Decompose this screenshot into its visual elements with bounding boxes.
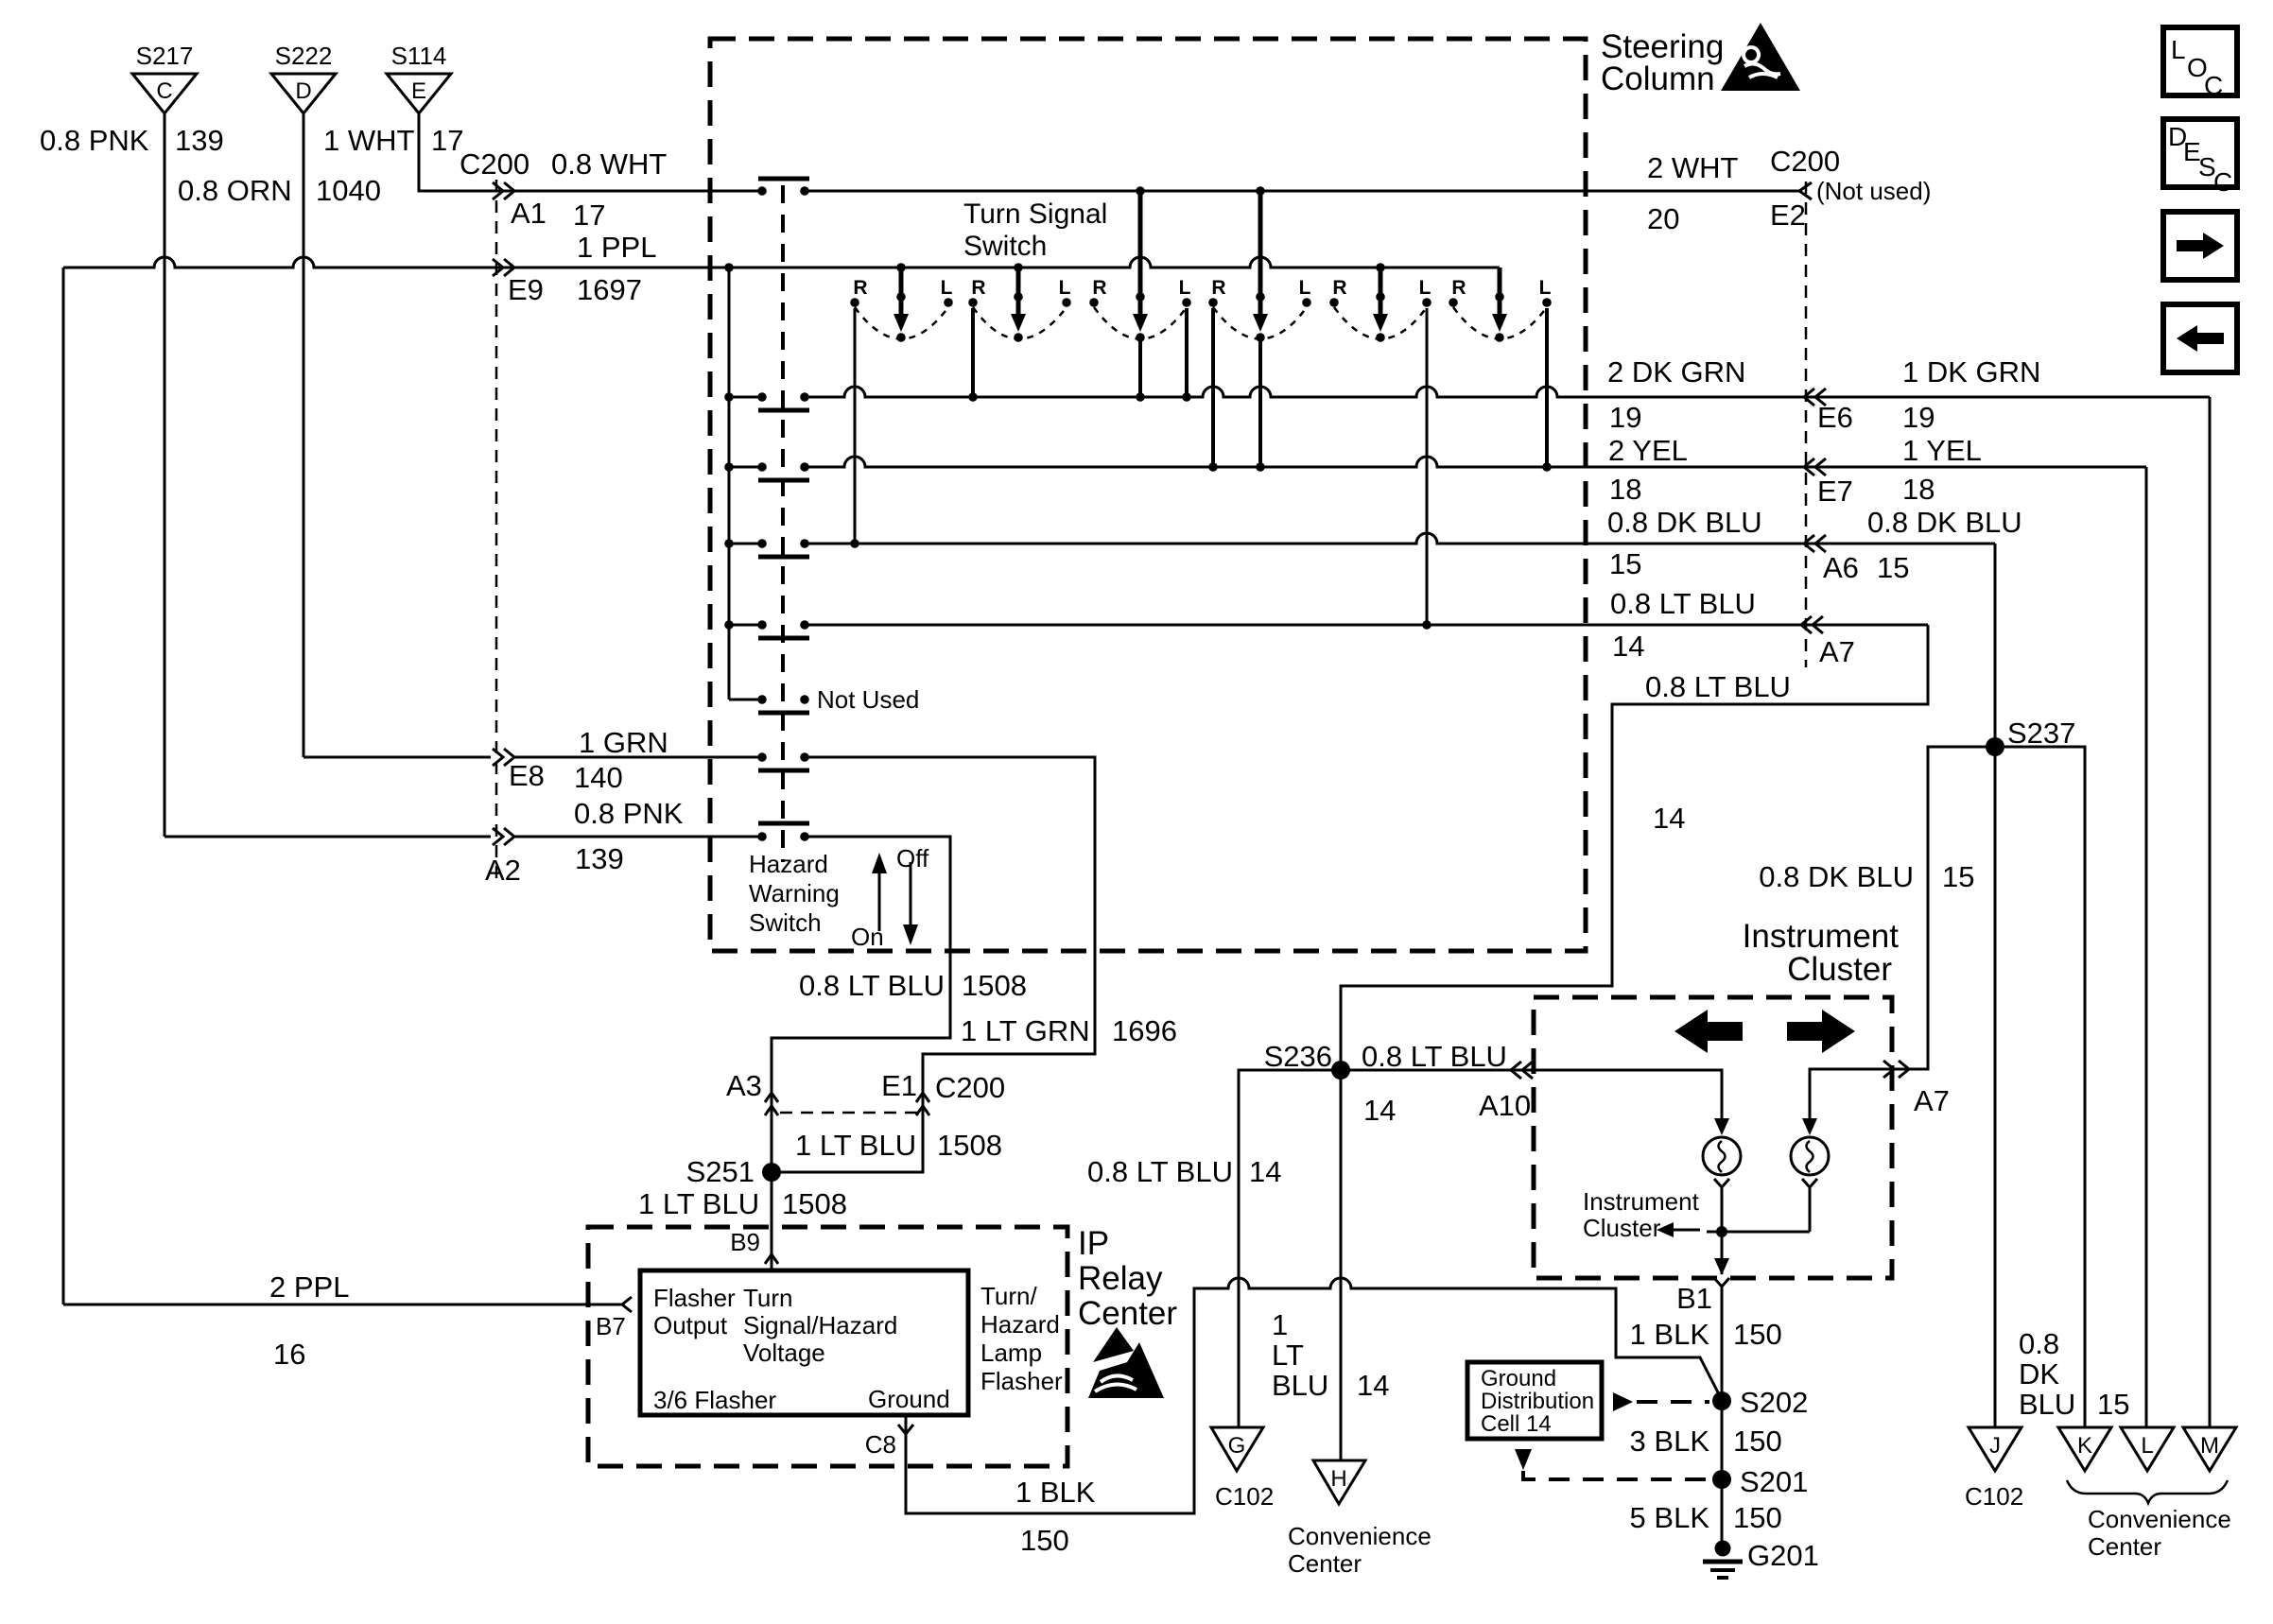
off-page triangle E (S114)	[387, 74, 451, 113]
svg-text:Output: Output	[653, 1311, 728, 1339]
wire row4 2 YEL / 1 YEL	[805, 457, 2146, 467]
svg-text:Instrument: Instrument	[1583, 1187, 1700, 1216]
svg-text:1 GRN: 1 GRN	[579, 726, 668, 759]
svg-text:Relay: Relay	[1078, 1260, 1163, 1297]
svg-text:R: R	[1211, 277, 1225, 299]
svg-text:0.8 LT BLU: 0.8 LT BLU	[1610, 587, 1756, 620]
svg-text:D: D	[295, 78, 311, 104]
svg-text:1 WHT: 1 WHT	[323, 124, 415, 157]
svg-text:L: L	[2171, 35, 2186, 64]
svg-text:1 LT BLU: 1 LT BLU	[638, 1187, 759, 1220]
hazard contact row1 (0.8 WHT feed)	[757, 186, 767, 196]
svg-text:0.8 DK BLU: 0.8 DK BLU	[1867, 506, 2022, 539]
turn signal switch pole 1 (R 904 / C 953 / L 1003)	[896, 263, 906, 272]
svg-text:15: 15	[1877, 551, 1909, 584]
svg-text:14: 14	[1653, 802, 1685, 835]
connector C200 pin E9 arrows	[493, 259, 514, 276]
steering column dashed box	[710, 39, 1586, 951]
connector C200 right dashed line	[1805, 181, 1808, 667]
wire 1 BLK 150 B1 to S202	[1721, 1287, 1724, 1401]
left bulb bottom chevron	[1714, 1179, 1729, 1187]
svg-text:1 BLK: 1 BLK	[1015, 1476, 1096, 1509]
node: hazard feed junction on row2	[724, 263, 734, 272]
svg-text:E9: E9	[508, 273, 544, 306]
svg-text:140: 140	[574, 761, 623, 794]
wire 5 BLK 150	[1721, 1479, 1724, 1547]
wire pole4 wiper to row4	[1258, 337, 1262, 467]
off-page triangle J	[1969, 1427, 2021, 1471]
svg-text:150: 150	[1020, 1524, 1069, 1557]
svg-text:19: 19	[1609, 401, 1641, 434]
splice S237	[1986, 737, 2004, 756]
svg-text:C: C	[2204, 71, 2223, 100]
svg-text:Center: Center	[2088, 1532, 2161, 1561]
wire row6 0.8 LT BLU	[805, 624, 1928, 627]
svg-text:L: L	[2141, 1433, 2153, 1459]
connector C200 pin E2 arrow	[1799, 182, 1812, 199]
wire row6 return path to S236	[1341, 625, 1928, 1070]
cluster right turn arrow icon	[1787, 1010, 1855, 1053]
svg-text:Center: Center	[1078, 1295, 1177, 1332]
turn signal switch pole 5 (R 1411 / C 1460 / L 1509)	[1376, 263, 1385, 272]
svg-text:E: E	[411, 78, 426, 104]
svg-text:139: 139	[175, 124, 224, 157]
svg-text:C200: C200	[935, 1071, 1005, 1104]
svg-text:S217: S217	[136, 42, 194, 70]
svg-text:BLU: BLU	[2019, 1388, 2075, 1421]
legend box LOC	[2163, 27, 2237, 95]
splice S202	[1712, 1391, 1731, 1410]
connector C200 pin A3 arrows	[765, 1093, 778, 1115]
left turn indicator bulb	[1703, 1137, 1741, 1175]
svg-text:S202: S202	[1740, 1386, 1808, 1419]
wire A2 row into hazard switch	[514, 836, 762, 838]
wire S236 down to H triangle	[1340, 1070, 1343, 1460]
node pole3 wiper on row3	[1136, 392, 1145, 402]
off-page triangle K	[2058, 1427, 2111, 1471]
connector C200 pin A7 arrows	[1801, 616, 1823, 633]
svg-text:L: L	[941, 277, 953, 299]
svg-text:Ground: Ground	[868, 1385, 950, 1413]
connector C200 pin E6 arrows	[1804, 389, 1826, 406]
svg-text:150: 150	[1733, 1501, 1782, 1534]
svg-text:Ground: Ground	[1481, 1366, 1556, 1391]
svg-text:1508: 1508	[937, 1129, 1002, 1162]
svg-text:K: K	[2077, 1433, 2092, 1459]
svg-text:Hazard: Hazard	[749, 850, 828, 878]
svg-text:A2: A2	[485, 854, 521, 887]
svg-text:14: 14	[1363, 1094, 1396, 1127]
wire S236 to G triangle	[1239, 1070, 1341, 1427]
svg-text:C8: C8	[865, 1430, 896, 1459]
svg-text:150: 150	[1733, 1318, 1782, 1351]
svg-text:0.8 LT BLU: 0.8 LT BLU	[1645, 670, 1791, 703]
svg-text:1508: 1508	[782, 1187, 847, 1220]
svg-text:A1: A1	[511, 197, 547, 230]
svg-text:1 PPL: 1 PPL	[577, 231, 656, 264]
svg-text:17: 17	[573, 199, 605, 232]
svg-text:G201: G201	[1747, 1539, 1819, 1572]
connector pin B7 chevron	[622, 1297, 632, 1312]
svg-text:A6: A6	[1823, 551, 1859, 584]
svg-text:1697: 1697	[577, 273, 642, 306]
svg-text:15: 15	[1942, 860, 1974, 893]
svg-text:Cell 14: Cell 14	[1481, 1411, 1552, 1437]
svg-text:C200: C200	[460, 147, 529, 181]
off-page triangle H	[1313, 1460, 1365, 1504]
wire S237 right branch to K	[1995, 747, 2085, 1427]
off-page triangle C (S217)	[132, 74, 197, 113]
svg-text:Center: Center	[1288, 1549, 1362, 1578]
svg-text:L: L	[1299, 277, 1311, 299]
svg-text:Voltage: Voltage	[743, 1339, 825, 1367]
svg-text:1 BLK: 1 BLK	[1630, 1318, 1710, 1351]
svg-text:C102: C102	[1965, 1482, 2023, 1511]
svg-text:Convenience: Convenience	[1288, 1522, 1431, 1550]
svg-text:2 DK GRN: 2 DK GRN	[1607, 355, 1745, 389]
svg-text:H: H	[1330, 1466, 1346, 1492]
svg-text:R: R	[1092, 277, 1106, 299]
svg-text:Switch: Switch	[749, 908, 822, 937]
legend box left arrow	[2163, 304, 2237, 372]
svg-text:1 LT GRN: 1 LT GRN	[961, 1014, 1090, 1047]
node pole3L on row3	[1182, 392, 1191, 402]
svg-text:S114: S114	[391, 42, 447, 70]
off-page triangle D (S222)	[271, 74, 336, 113]
ground distribution down arrow	[1515, 1449, 1532, 1470]
svg-text:0.8 LT BLU: 0.8 LT BLU	[1087, 1155, 1233, 1188]
wire 3 BLK 150	[1721, 1401, 1724, 1479]
ground distribution cell box	[1467, 1362, 1602, 1439]
svg-text:1 DK GRN: 1 DK GRN	[1902, 355, 2040, 389]
svg-text:15: 15	[1609, 547, 1641, 580]
svg-text:Off: Off	[896, 844, 929, 872]
svg-text:18: 18	[1902, 473, 1935, 506]
svg-text:14: 14	[1612, 630, 1644, 663]
svg-text:1 YEL: 1 YEL	[1902, 434, 1982, 467]
svg-text:R: R	[971, 277, 985, 299]
wire 1 DK GRN drop to M	[2209, 397, 2212, 1427]
node pole4R on row4	[1208, 462, 1218, 472]
wire S236 to A10	[1341, 1069, 1534, 1072]
connector C200 pin E8 arrows	[493, 749, 514, 766]
off-page triangle M	[2183, 1427, 2236, 1471]
wire 1 GRN 140 row E8	[304, 756, 491, 759]
svg-text:R: R	[1451, 277, 1466, 299]
wire row3 2 DK GRN / 1 DK GRN	[805, 387, 2210, 397]
svg-text:Flasher: Flasher	[980, 1367, 1063, 1395]
connector pin B1 chevron	[1714, 1278, 1729, 1287]
wire 0.8 WHT row1: E down then right through C200 A1 to E2	[419, 113, 1799, 191]
svg-text:C: C	[156, 78, 172, 104]
wire pole3 L to row3	[1185, 308, 1189, 397]
wire pole3 wiper to row3	[1138, 337, 1142, 397]
connector C200 pin A2 arrows	[493, 828, 514, 845]
wire pole1 R to row5	[854, 308, 857, 544]
wire A10 to left bulb	[1534, 1070, 1722, 1127]
wire left bulb down	[1721, 1187, 1724, 1232]
svg-text:A7: A7	[1819, 635, 1855, 668]
svg-text:BLU: BLU	[1272, 1369, 1328, 1402]
hazard switch mechanical dashed line	[781, 185, 785, 862]
cluster left turn arrow icon	[1674, 1010, 1743, 1053]
svg-text:139: 139	[575, 842, 624, 875]
arrowhead into right bulb	[1802, 1118, 1817, 1135]
svg-text:Lamp: Lamp	[980, 1339, 1042, 1367]
wire E8 row into hazard switch	[514, 756, 762, 759]
svg-text:0.8 ORN: 0.8 ORN	[178, 174, 292, 207]
svg-text:L: L	[1539, 277, 1552, 299]
svg-text:L: L	[1059, 277, 1071, 299]
svg-text:E1: E1	[881, 1069, 917, 1102]
svg-text:C102: C102	[1215, 1482, 1274, 1511]
node pole5L on row6	[1422, 620, 1431, 630]
svg-text:A7: A7	[1914, 1084, 1950, 1117]
svg-text:S237: S237	[2007, 717, 2075, 750]
wire 0.8 PNK 139 from C down to A2 row	[164, 113, 166, 837]
svg-text:Convenience: Convenience	[2088, 1505, 2231, 1533]
svg-text:2 PPL: 2 PPL	[269, 1270, 349, 1304]
node bulbs common junction	[1716, 1226, 1727, 1237]
svg-text:Turn: Turn	[743, 1284, 793, 1312]
IP relay center dashed box	[588, 1227, 1067, 1466]
svg-text:Flasher: Flasher	[653, 1284, 736, 1312]
svg-text:(Not used): (Not used)	[1816, 177, 1931, 205]
wire 0.8 DK BLU drop to S237 and J	[1994, 544, 1997, 1427]
svg-text:Turn Signal: Turn Signal	[963, 199, 1107, 230]
svg-text:2 YEL: 2 YEL	[1608, 434, 1688, 467]
hazard On arrow (down)	[910, 862, 912, 926]
dashed link to S201	[1523, 1471, 1709, 1479]
arrowhead into left bulb	[1714, 1118, 1729, 1135]
svg-text:A3: A3	[726, 1069, 762, 1102]
svg-text:E2: E2	[1770, 199, 1806, 232]
svg-text:L: L	[1419, 277, 1431, 299]
wire S237 left branch to cluster A7	[1892, 747, 1995, 1069]
svg-text:M: M	[2200, 1433, 2219, 1459]
svg-text:0.8: 0.8	[2019, 1327, 2059, 1360]
svg-text:1: 1	[1272, 1308, 1288, 1341]
svg-text:S201: S201	[1740, 1465, 1808, 1498]
wire pole5 L to row6	[1426, 308, 1429, 625]
ground distribution right arrow	[1613, 1392, 1633, 1411]
svg-text:15: 15	[2097, 1388, 2129, 1421]
dashed link to S202	[1637, 1400, 1709, 1404]
wire pole2 R to row3	[971, 308, 975, 397]
svg-text:Warning: Warning	[749, 879, 840, 907]
turn signal switch pole 2 (R 1029 / C 1077 / L 1128)	[1014, 263, 1023, 272]
wire A7 to right bulb	[1810, 1069, 1892, 1127]
hazard Off arrow (up)	[878, 872, 881, 931]
svg-text:B9: B9	[730, 1228, 760, 1256]
hazard contact row6	[724, 620, 734, 630]
node pole6L on row4	[1542, 462, 1552, 472]
svg-text:0.8 PNK: 0.8 PNK	[40, 124, 149, 157]
wire 0.8 LT BLU 1508 from hazard contact to A3	[772, 837, 950, 1172]
svg-text:1 LT BLU: 1 LT BLU	[795, 1129, 916, 1162]
wire 0.8 PNK 139 row A2	[165, 836, 491, 838]
svg-text:150: 150	[1733, 1425, 1782, 1458]
svg-text:Column: Column	[1601, 60, 1715, 97]
wire common down through cluster box edge	[1721, 1232, 1724, 1274]
svg-text:A10: A10	[1479, 1089, 1531, 1122]
svg-text:E6: E6	[1817, 401, 1853, 434]
svg-text:14: 14	[1357, 1369, 1389, 1402]
svg-text:R: R	[1332, 277, 1346, 299]
connector pin B9 chevron	[765, 1254, 778, 1264]
wire row5 0.8 DK BLU	[805, 533, 1995, 544]
arrowhead at cluster box bottom	[1714, 1258, 1729, 1275]
svg-text:Turn/: Turn/	[980, 1282, 1037, 1310]
node pole2R on row3	[968, 392, 978, 402]
svg-text:E8: E8	[509, 759, 545, 792]
instrument cluster dashed box	[1534, 997, 1892, 1278]
wire bulbs common	[1707, 1231, 1810, 1234]
svg-text:1040: 1040	[316, 174, 381, 207]
svg-text:2 WHT: 2 WHT	[1647, 151, 1739, 184]
right bulb bottom chevron	[1802, 1179, 1817, 1187]
svg-text:Distribution: Distribution	[1481, 1389, 1594, 1414]
connector pin A10 arrows	[1511, 1062, 1533, 1079]
hazard contact E8 row (1 GRN)	[757, 752, 767, 762]
svg-text:B7: B7	[596, 1312, 626, 1340]
turn signal switch pole 3 (R 1157 / C 1206 / L 1255)	[1138, 191, 1143, 320]
svg-text:1508: 1508	[962, 969, 1027, 1002]
node pole1R on row5	[850, 539, 859, 548]
svg-text:3/6 Flasher: 3/6 Flasher	[653, 1386, 776, 1414]
wire pole4 R to row4	[1211, 308, 1215, 467]
svg-text:0.8 DK BLU: 0.8 DK BLU	[1607, 506, 1762, 539]
off-page triangle G	[1211, 1427, 1263, 1471]
svg-text:DK: DK	[2019, 1357, 2059, 1391]
connector C200 left dashed line	[495, 180, 498, 884]
wire 1 YEL drop to L	[2145, 467, 2148, 1427]
ground G201	[1715, 1541, 1731, 1557]
splice S201	[1712, 1470, 1731, 1489]
svg-text:E7: E7	[1817, 475, 1853, 508]
svg-text:G: G	[1228, 1433, 1246, 1459]
legend box right arrow	[2163, 212, 2237, 280]
hazard contact A2 row (0.8 PNK)	[757, 832, 767, 841]
svg-text:B1: B1	[1676, 1282, 1712, 1315]
svg-text:0.8 DK BLU: 0.8 DK BLU	[1759, 860, 1914, 893]
svg-text:Signal/Hazard: Signal/Hazard	[743, 1311, 897, 1339]
wire pole6 L to row4	[1545, 308, 1549, 467]
node pole4 wiper on row4	[1256, 462, 1265, 472]
svg-text:C200: C200	[1770, 145, 1840, 178]
hazard contact row5	[724, 539, 734, 548]
svg-text:0.8 LT BLU: 0.8 LT BLU	[1362, 1040, 1507, 1073]
right turn indicator bulb	[1791, 1137, 1829, 1175]
svg-text:S236: S236	[1264, 1040, 1332, 1073]
svg-text:R: R	[853, 277, 867, 299]
wire 2 PPL 16 to IP relay center B7	[63, 1304, 621, 1306]
wire 1 LT GRN 1696 from E8 contact to E1	[772, 757, 1095, 1172]
connector pin A7 cluster arrows	[1883, 1061, 1909, 1078]
svg-text:5 BLK: 5 BLK	[1630, 1501, 1710, 1534]
turn signal switch pole 4 (R 1283 / C 1333 / L 1382)	[1258, 191, 1263, 320]
wire hazard feed riser	[728, 268, 731, 700]
svg-text:IP: IP	[1078, 1225, 1109, 1262]
svg-text:S251: S251	[686, 1155, 755, 1188]
svg-text:16: 16	[273, 1338, 305, 1371]
svg-text:On: On	[851, 923, 884, 951]
ESD triangle icon	[1093, 1327, 1134, 1362]
connector pin C8 chevron	[898, 1425, 913, 1434]
legend box DESC	[2163, 119, 2237, 187]
hazard contact row3	[724, 392, 734, 402]
connector C200 bottom dashed line	[780, 1112, 917, 1114]
svg-text:18: 18	[1609, 473, 1641, 506]
svg-text:J: J	[1989, 1433, 2001, 1459]
svg-text:C: C	[2213, 167, 2232, 197]
svg-text:Hazard: Hazard	[980, 1310, 1060, 1339]
wire far-left vertical (1 PPL / 2 PPL riser)	[62, 268, 65, 1304]
wire 1 PPL row2 from far-left vertical to switch feed, crossing C and D wires	[63, 257, 1500, 268]
svg-text:Instrument: Instrument	[1743, 918, 1900, 955]
svg-text:0.8 PNK: 0.8 PNK	[574, 797, 684, 830]
steering column warning triangle icon	[1721, 23, 1800, 91]
svg-text:Switch: Switch	[963, 231, 1047, 262]
svg-text:1696: 1696	[1112, 1014, 1177, 1047]
connector C200 pin E7 arrows	[1804, 458, 1826, 475]
svg-text:0.8 LT BLU: 0.8 LT BLU	[799, 969, 945, 1002]
hazard contact row4	[724, 462, 734, 472]
off-page triangle L	[2121, 1427, 2174, 1471]
connector C200 pin A6 arrows	[1804, 535, 1826, 552]
splice S236	[1331, 1061, 1350, 1080]
svg-text:20: 20	[1647, 202, 1679, 235]
connector C200 pin E1 arrows	[916, 1093, 929, 1115]
brace under K L M	[2067, 1480, 2228, 1503]
svg-text:Not Used: Not Used	[817, 685, 919, 714]
svg-text:LT: LT	[1272, 1339, 1304, 1372]
svg-text:Cluster: Cluster	[1583, 1214, 1661, 1242]
wire 1 LT BLU 1508 S251 to B9	[771, 1172, 773, 1270]
svg-text:19: 19	[1902, 401, 1935, 434]
svg-text:S222: S222	[275, 42, 333, 70]
wire ground C8 to S202	[906, 1278, 1720, 1513]
svg-text:L: L	[1179, 277, 1191, 299]
splice S251	[762, 1163, 781, 1182]
hazard contact Not Used	[729, 699, 762, 701]
svg-text:Cluster: Cluster	[1787, 951, 1892, 988]
turn signal switch pole 6 (R 1537 / C 1586 / L 1636)	[1498, 268, 1502, 320]
svg-text:14: 14	[1249, 1155, 1281, 1188]
svg-text:3 BLK: 3 BLK	[1630, 1425, 1710, 1458]
wire 0.8 ORN 1040 from D down to E8 row	[303, 113, 305, 757]
connector C200 pin A1 arrows	[493, 182, 514, 199]
svg-text:0.8 WHT: 0.8 WHT	[551, 147, 667, 181]
flasher module box	[640, 1270, 968, 1415]
wire right bulb down	[1809, 1187, 1812, 1232]
